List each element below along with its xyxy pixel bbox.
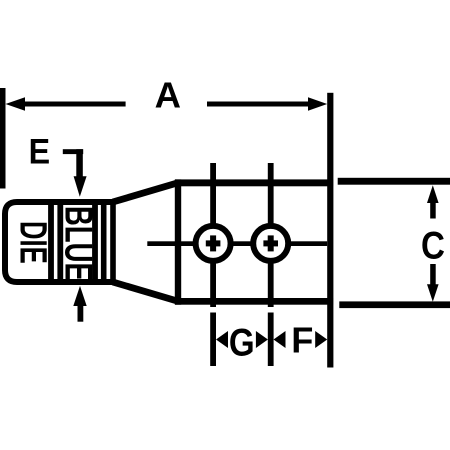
dimension A left shaft: [22, 102, 126, 107]
dimension C up shaft: [430, 201, 436, 219]
dimension G right arrowhead: [256, 331, 268, 348]
cylinder outline (rounded left): [5, 202, 113, 282]
dimension F left arrowhead: [274, 331, 286, 348]
dimension C down arrowhead: [427, 284, 439, 302]
dimension A left arrowhead: [6, 97, 26, 111]
svg-text:F: F: [291, 320, 313, 361]
cylinder right edge line: [110, 199, 116, 285]
dimension C down shaft: [430, 264, 436, 285]
band line 2: [57, 199, 63, 285]
extension below 1: [210, 313, 216, 367]
screw right: [253, 226, 288, 261]
extension line right bottom (for C): [339, 301, 450, 308]
arrow E up (below cylinder): [73, 286, 86, 306]
taper bottom line: [113, 282, 178, 301]
band line 4: [101, 199, 107, 285]
taper top line: [113, 183, 178, 202]
band line 3: [92, 199, 98, 285]
leader E vertical: [76, 149, 83, 176]
svg-text:E: E: [29, 133, 50, 172]
dimension F right arrowhead: [315, 331, 327, 348]
svg-text:G: G: [229, 321, 255, 364]
center line vertical 1: [210, 163, 216, 307]
svg-text:DIE: DIE: [12, 221, 54, 264]
body bottom line: [175, 298, 333, 305]
center line vertical 2: [268, 163, 274, 307]
body top line: [175, 179, 333, 186]
extension line right top (for C): [338, 178, 450, 185]
dimension G left arrowhead: [216, 331, 228, 348]
dimension C up arrowhead: [427, 185, 439, 203]
extension below 2: [268, 313, 274, 367]
leader E horizontal: [63, 149, 83, 154]
band line 1: [48, 199, 54, 285]
dimension A right shaft: [207, 102, 310, 107]
extension line left (for A): [0, 88, 6, 189]
center line horizontal: [147, 241, 327, 246]
flange line: [327, 93, 333, 368]
body left edge: [175, 179, 181, 304]
svg-text:BLUE: BLUE: [56, 206, 100, 281]
svg-text:C: C: [421, 223, 445, 267]
svg-text:A: A: [155, 74, 181, 115]
leader E down arrowhead: [74, 176, 87, 197]
dimension A right arrowhead: [308, 97, 327, 111]
screw left: [196, 226, 231, 261]
